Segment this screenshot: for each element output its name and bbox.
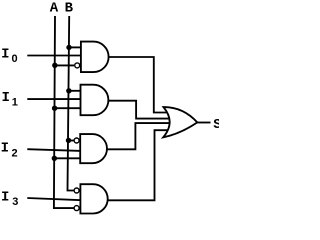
node: junction A to U1 (52, 63, 57, 68)
svg-text:3: 3 (12, 196, 18, 208)
wire: input I1 to U2 middle input (27, 98, 82, 100)
wire: OR output to S (197, 122, 210, 124)
svg-text:I: I (1, 140, 9, 156)
svg-text:B: B (65, 1, 74, 17)
wire: B tap to U1 top input (69, 46, 82, 48)
node: junction B to U1 (66, 45, 71, 50)
svg-text:2: 2 (12, 148, 18, 160)
wire: U3 output to OR input 3 (107, 123, 172, 149)
OR gate U5 (output S) (163, 107, 197, 137)
wire: B tap to U2 top input (69, 90, 82, 92)
svg-text:I: I (2, 90, 10, 106)
wire: input I2 to U3 middle input (27, 149, 81, 151)
AND gate U1 (I0 term) (81, 42, 109, 73)
inverter bubble on U4 bottom input (A-bar) (74, 206, 79, 211)
node: junction A to U3 (52, 156, 57, 161)
svg-text:S: S (213, 117, 219, 133)
AND gate U3 (I2 term) (80, 134, 107, 163)
wire: A tap to U3 bottom input (54, 157, 81, 159)
wire: input I3 to U4 middle input (27, 198, 81, 200)
svg-text:1: 1 (12, 97, 18, 109)
inverter bubble on U3 top input (B-bar) (74, 138, 79, 143)
wire: B tap to U3 inverted top input (69, 140, 74, 142)
svg-text:0: 0 (12, 53, 18, 65)
wire: U2 output to OR input 2 (108, 101, 172, 119)
wire: A tap to U1 inverted bottom input (55, 64, 74, 66)
wire: U1 output to OR input 1 (109, 57, 172, 113)
svg-text:I: I (1, 46, 9, 62)
svg-text:A: A (50, 1, 59, 17)
svg-text:I: I (1, 189, 9, 205)
AND gate U4 (I3 term) (80, 184, 107, 213)
node: junction B to U3 (66, 138, 71, 143)
inverter bubble on U1 bottom input (A-bar) (75, 63, 80, 68)
wire: select line A (vertical, bends right into U4 lower bubble) (54, 16, 74, 208)
node: junction B to U2 (66, 88, 71, 93)
wire: U4 output to OR input 4 (108, 130, 171, 200)
wire: A tap to U2 bottom input (55, 107, 82, 109)
wire: select line B (vertical, bends right into U4 upper bubble) (68, 16, 74, 191)
AND gate U2 (I1 term) (81, 85, 109, 116)
inverter bubble on U4 top input (B-bar) (74, 188, 79, 193)
wire: input I0 to U1 middle input (27, 55, 82, 57)
node: junction A to U2 (52, 106, 57, 111)
